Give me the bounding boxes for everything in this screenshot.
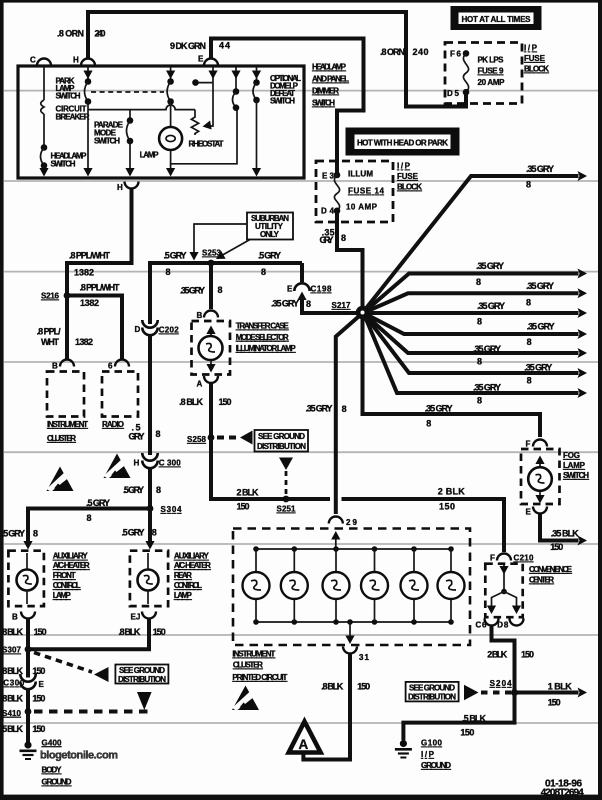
- svg-text:DISTRIBUTION: DISTRIBUTION: [257, 442, 306, 451]
- connector A below transfer case: [179, 376, 232, 435]
- interior rail from park switch to rheostat (hop over lamp wire): [88, 105, 195, 110]
- svg-text:LAMP: LAMP: [174, 591, 193, 600]
- svg-text:.8 PPL/WHT: .8 PPL/WHT: [80, 283, 121, 293]
- connector B at transfer case: [197, 311, 219, 321]
- svg-text:GROUND: GROUND: [42, 778, 72, 787]
- svg-text:S304: S304: [161, 505, 183, 514]
- wire: .8 BLK 150 aux front to S307: [1, 618, 47, 649]
- svg-text:C: C: [30, 56, 36, 65]
- plate codes: [541, 779, 584, 799]
- svg-text:150: 150: [439, 502, 455, 512]
- svg-text:2 BLK: 2 BLK: [487, 650, 508, 660]
- svg-text:150: 150: [32, 724, 45, 734]
- svg-text:CLUSTER: CLUSTER: [47, 434, 76, 443]
- svg-text:8: 8: [306, 299, 311, 309]
- wire: 2 BLK 150 S258 to S251: [211, 438, 286, 512]
- svg-text:B: B: [197, 311, 203, 320]
- svg-text:.35 GRY: .35 GRY: [180, 286, 205, 296]
- svg-text:PRINTED CIRCUIT: PRINTED CIRCUIT: [232, 673, 287, 682]
- splice S217: [332, 301, 352, 310]
- wire: .8 BLK 150 from 31 to splice A: [303, 655, 370, 760]
- svg-text:E: E: [526, 508, 532, 517]
- svg-text:G100: G100: [421, 739, 443, 748]
- svg-text:AUXILIARY: AUXILIARY: [53, 552, 89, 561]
- svg-text:S410: S410: [2, 709, 22, 718]
- svg-text:150: 150: [153, 627, 166, 637]
- splice S304: [147, 505, 182, 514]
- ground G100 I/P ground: [395, 739, 451, 771]
- svg-text:C6: C6: [476, 621, 488, 630]
- wire: .35 GRY transfer case branch from S253: [180, 263, 223, 309]
- wire: .35 GRY 8 fan 2: [367, 281, 588, 312]
- svg-text:9 DK GRN: 9 DK GRN: [170, 41, 206, 51]
- svg-text:.35 GRY: .35 GRY: [306, 404, 333, 414]
- wire: 2 BLK 150 S251 to convenience center C210: [286, 487, 504, 553]
- ESD warning triangle 3: [232, 686, 259, 711]
- circuit breaker + headlamp switch on C leg: [39, 67, 89, 177]
- svg-text:INSTRUMENT: INSTRUMENT: [232, 650, 275, 659]
- svg-text:DISTRIBUTION: DISTRIBUTION: [118, 675, 166, 684]
- svg-text:.35 GRY: .35 GRY: [271, 299, 299, 309]
- svg-text:D: D: [135, 325, 141, 334]
- connector 6 at radio: [108, 360, 129, 371]
- svg-text:I/P: I/P: [524, 44, 538, 53]
- wire: .35 BLK 150 fog switch to I/P: [540, 514, 587, 552]
- svg-text:.5 GRY: .5 GRY: [2, 529, 25, 539]
- svg-text:150: 150: [357, 682, 370, 692]
- connector F / C210 at convenience center: [490, 554, 534, 563]
- svg-text:.5 GRY: .5 GRY: [122, 528, 145, 538]
- svg-text:SEE GROUND: SEE GROUND: [119, 666, 165, 675]
- rheostat: [189, 79, 224, 148]
- svg-text:PK LPS: PK LPS: [478, 56, 505, 65]
- svg-text:BODY: BODY: [42, 766, 63, 775]
- dimmer wiper feed from E: [208, 67, 217, 83]
- svg-text:8: 8: [477, 317, 482, 327]
- connector C: [37, 59, 51, 66]
- connector E: [204, 59, 218, 66]
- park lamp switch on H leg: [56, 67, 93, 177]
- svg-text:blogetonile.com: blogetonile.com: [40, 750, 118, 762]
- svg-text:2 BLK: 2 BLK: [438, 487, 466, 497]
- connector B below aux front: [12, 612, 35, 622]
- svg-text:29: 29: [346, 518, 358, 527]
- instrument cluster printed circuit box: [232, 529, 470, 683]
- svg-text:TRANSFER CASE: TRANSFER CASE: [236, 322, 290, 331]
- wire: .35 GRY 8 fan 7: [365, 317, 587, 406]
- connector C300 (H) on .5 GRY run: [123, 453, 181, 509]
- wire: .5 BLK 150 S410 to G400: [1, 712, 45, 743]
- svg-text:CONVENIENCE: CONVENIENCE: [529, 565, 573, 574]
- svg-text:.8 ORN: .8 ORN: [380, 47, 405, 57]
- svg-text:8: 8: [426, 419, 431, 429]
- cluster lamp 6: [438, 546, 465, 625]
- svg-text:FUSE: FUSE: [524, 54, 546, 63]
- top bus: [255, 548, 451, 550]
- HOT WITH HEAD OR PARK box: [346, 128, 460, 156]
- label: HEADLAMP AND PANEL DIMMER SWITCH: [312, 63, 349, 108]
- wire: .5 GRY right leg of S253 down to C198: [300, 263, 304, 282]
- svg-text:S251: S251: [277, 505, 297, 514]
- svg-text:D8: D8: [497, 621, 509, 630]
- svg-text:.35 BLK: .35 BLK: [551, 529, 580, 539]
- connector H: [81, 59, 95, 66]
- svg-text:CENTER: CENTER: [529, 576, 554, 585]
- wire: .35 GRY 8 fan 1: [366, 261, 587, 311]
- auxiliary A/C-heater rear control lamp: [130, 551, 211, 606]
- svg-text:FOG: FOG: [563, 451, 580, 460]
- ground G400 body ground: [20, 738, 72, 786]
- wire: .8 PPL/WHT 1382 S216 down to instrument cluster B: [37, 296, 93, 361]
- svg-text:8: 8: [526, 298, 531, 308]
- svg-text:8: 8: [342, 404, 347, 414]
- svg-text:10 AMP: 10 AMP: [346, 203, 378, 212]
- svg-text:8: 8: [87, 513, 92, 523]
- svg-text:240: 240: [95, 29, 106, 39]
- cluster lamp 4: [361, 546, 388, 625]
- splice S216: [41, 292, 70, 301]
- svg-text:SWITCH: SWITCH: [56, 92, 81, 101]
- svg-text:150: 150: [521, 650, 534, 660]
- svg-text:8: 8: [477, 357, 482, 367]
- wire: .35 GRY 8 fan 5: [366, 316, 587, 367]
- svg-text:BLOCK: BLOCK: [397, 183, 422, 192]
- svg-text:AND PANEL: AND PANEL: [312, 75, 349, 84]
- svg-text:8: 8: [527, 337, 532, 347]
- svg-text:SWITCH: SWITCH: [51, 160, 76, 169]
- wire: .35 GRY 8 from fuse D4 down to S217: [320, 211, 363, 308]
- wire: .35 GRY 8 fan 4: [367, 315, 588, 348]
- svg-text:B: B: [12, 613, 18, 622]
- wire: .8 PPL/WHT 1382 branch S216 to radio: [67, 283, 122, 361]
- svg-text:SWITCH: SWITCH: [312, 99, 335, 108]
- wire: 9 DK GRN 44 from dimmer switch E to ILLUM fuse E3: [170, 39, 364, 174]
- svg-text:GRY: GRY: [320, 235, 334, 245]
- svg-text:ONLY: ONLY: [260, 230, 280, 239]
- svg-text:HEADLAMP: HEADLAMP: [312, 63, 347, 72]
- svg-text:31: 31: [359, 653, 370, 662]
- headlamp switch assembly box: [18, 55, 304, 179]
- wire: .8 BLK 150 S307 to C300: [1, 649, 45, 677]
- svg-text:BLOCK: BLOCK: [524, 65, 549, 74]
- svg-text:8: 8: [527, 376, 532, 386]
- connector 31 below cluster: [343, 647, 370, 663]
- svg-text:C198: C198: [311, 285, 333, 294]
- svg-text:8: 8: [33, 529, 38, 539]
- svg-text:H: H: [73, 56, 79, 65]
- svg-text:GROUND: GROUND: [421, 761, 451, 770]
- svg-text:1382: 1382: [75, 337, 93, 347]
- svg-text:8: 8: [341, 233, 346, 243]
- HOT AT ALL TIMES box: [451, 6, 542, 30]
- wire: 2 BLK 150 C6 to S204: [487, 625, 534, 690]
- svg-text:MODE SELECTOR: MODE SELECTOR: [236, 333, 289, 342]
- connector EJ below aux rear: [131, 612, 157, 622]
- wire: .8 PPL/WHT 1382 from H to S216: [67, 190, 132, 296]
- bottom bus: [255, 621, 451, 623]
- svg-text:8: 8: [476, 277, 481, 287]
- fuse block: PK LPS FUSE 9 (F6/D5), I/P FUSE BLOCK: [445, 43, 549, 104]
- svg-text:.35 GRY: .35 GRY: [527, 322, 555, 332]
- svg-text:INSTRUMENT: INSTRUMENT: [47, 420, 88, 429]
- svg-text:ILLUMINATOR LAMP: ILLUMINATOR LAMP: [236, 344, 297, 353]
- svg-text:S258: S258: [187, 435, 207, 444]
- wire: .5 GRY 8 S304 to aux front lamp: [2, 498, 150, 550]
- svg-text:.8 BLK: .8 BLK: [321, 682, 344, 692]
- connector C202 (D) on .5 GRY run: [129, 320, 180, 455]
- svg-text:SWITCH: SWITCH: [563, 471, 589, 480]
- svg-text:FUSE 14: FUSE 14: [348, 187, 385, 196]
- wire: .8 ORN 240 feed from fuse 9 D5 to headlamp switch H: [57, 12, 466, 107]
- svg-text:S217: S217: [332, 301, 352, 310]
- svg-text:8: 8: [156, 485, 161, 495]
- svg-text:.5 BLK: .5 BLK: [1, 724, 24, 734]
- svg-text:.5 BLK: .5 BLK: [462, 714, 487, 724]
- ESD warning triangle 2: [104, 454, 131, 479]
- svg-text:1382: 1382: [74, 268, 94, 278]
- wire: .35 GRY 8 fan 3: [367, 301, 587, 327]
- svg-text:A/C-HEATER: A/C-HEATER: [174, 561, 211, 570]
- splice S307 with ground distribution callout: [2, 646, 168, 685]
- svg-text:H: H: [134, 459, 140, 468]
- instrument cluster (illumination input) dashed box: [47, 372, 88, 444]
- svg-text:8: 8: [526, 180, 531, 190]
- svg-text:.35 GRY: .35 GRY: [477, 301, 505, 311]
- wire: .5 GRY 8 S304 to aux rear lamp: [122, 509, 157, 550]
- optional dome lamp defeat switch (two poles): [231, 67, 301, 177]
- svg-text:.5 GRY: .5 GRY: [258, 251, 281, 261]
- svg-text:DIMMER: DIMMER: [312, 87, 339, 96]
- svg-text:.8 ORN: .8 ORN: [57, 29, 84, 39]
- svg-text:WHT: WHT: [41, 337, 60, 347]
- cluster exit to 31: [347, 619, 353, 625]
- wire: .8 BLK 150 aux rear to S307 run: [28, 618, 166, 649]
- svg-text:44: 44: [219, 41, 230, 51]
- svg-text:20 AMP: 20 AMP: [478, 78, 506, 87]
- svg-text:DISTRIBUTION: DISTRIBUTION: [408, 693, 456, 702]
- svg-text:A/C-HEATER: A/C-HEATER: [53, 561, 90, 570]
- svg-text:LAMP: LAMP: [140, 151, 160, 160]
- svg-text:.35 GRY: .35 GRY: [473, 344, 501, 354]
- svg-text:E: E: [198, 55, 204, 64]
- svg-text:SEE GROUND: SEE GROUND: [409, 684, 455, 693]
- fuse block: ILLUM FUSE 14 (E3/D4), I/P FUSE BLOCK: [316, 161, 422, 222]
- wire: .35 GRY 8 fan 6: [366, 316, 588, 386]
- svg-text:150: 150: [32, 694, 45, 704]
- svg-text:8: 8: [152, 528, 157, 538]
- svg-text:.35 GRY: .35 GRY: [526, 281, 554, 291]
- wire: .35 GRY 8 S217 down to fog lamp switch: [363, 316, 541, 437]
- convenience center: [485, 564, 572, 618]
- park rail switch leg with lamp: [140, 67, 237, 177]
- svg-text:.8 BLK: .8 BLK: [1, 694, 24, 704]
- cluster lamp 5: [401, 546, 428, 625]
- svg-text:H: H: [117, 183, 123, 192]
- svg-text:1382: 1382: [80, 298, 99, 308]
- wire: .35 GRY 8 S217 down to instrument cluster 29: [306, 316, 360, 515]
- svg-text:.35 GRY: .35 GRY: [524, 363, 552, 373]
- svg-text:8: 8: [218, 285, 223, 295]
- parade mode switch: [94, 110, 135, 177]
- svg-text:EJ: EJ: [131, 613, 141, 622]
- splice S410 with ground distribution dashes: [2, 692, 152, 718]
- svg-text:REAR: REAR: [174, 571, 192, 580]
- svg-text:HOT WITH HEAD OR PARK: HOT WITH HEAD OR PARK: [357, 138, 448, 147]
- svg-text:.8 BLK: .8 BLK: [1, 627, 24, 637]
- svg-text:LAMP: LAMP: [53, 591, 72, 600]
- fuse element F6-D5: [463, 53, 468, 92]
- svg-text:A: A: [197, 380, 203, 389]
- fuse element E3-D4: [334, 175, 339, 211]
- svg-text:B: B: [52, 362, 58, 371]
- svg-text:SWITCH: SWITCH: [270, 97, 295, 106]
- svg-text:C210: C210: [514, 554, 535, 563]
- svg-text:GRY: GRY: [129, 432, 145, 442]
- cluster lamp 1: [243, 546, 270, 625]
- svg-text:F6: F6: [450, 50, 462, 59]
- transfer case mode selector illuminator lamp: [192, 321, 297, 375]
- svg-text:150: 150: [219, 397, 232, 407]
- splice S204 with ground distribution callout: [406, 679, 518, 702]
- svg-text:RADIO: RADIO: [102, 420, 124, 429]
- svg-text:240: 240: [413, 47, 429, 57]
- svg-text:CLUSTER: CLUSTER: [233, 661, 263, 670]
- svg-text:A: A: [299, 737, 309, 752]
- svg-text:150: 150: [237, 502, 250, 512]
- svg-text:.35 GRY: .35 GRY: [425, 404, 453, 414]
- lamp (panel illumination): [159, 127, 182, 150]
- svg-text:BREAKER: BREAKER: [56, 113, 90, 122]
- ground reference triangle A: [289, 722, 321, 753]
- wire: .5 BLK 150 S204 to G100: [403, 693, 514, 741]
- svg-text:.5 GRY: .5 GRY: [123, 485, 144, 495]
- connector B at instrument cluster: [52, 360, 74, 371]
- cluster lamp 2: [281, 546, 308, 625]
- svg-text:150: 150: [34, 627, 47, 637]
- svg-text:S216: S216: [41, 292, 60, 301]
- splice S251 fed from ground distribution (arrow down): [277, 458, 297, 514]
- wire: .35 GRY 8 fan top run to I/P: [366, 164, 588, 309]
- splice S217 ring (drawn over fan roots): [358, 308, 367, 317]
- SUBURBAN UTILITY ONLY callout: [189, 213, 293, 263]
- faint scan rules: [4, 91, 598, 723]
- svg-text:.5 GRY: .5 GRY: [164, 251, 187, 261]
- svg-text:8: 8: [156, 429, 161, 439]
- svg-text:4208T2694: 4208T2694: [541, 788, 584, 799]
- svg-text:.35 GRY: .35 GRY: [526, 164, 554, 174]
- ESD warning triangle 1: [47, 467, 74, 492]
- svg-text:SEE GROUND: SEE GROUND: [258, 432, 305, 441]
- splice S253: [202, 249, 222, 267]
- wire: .5 GRY 8 main illumination run S253: [150, 251, 302, 325]
- svg-text:.5 GRY: .5 GRY: [86, 498, 110, 508]
- svg-text:.8 BLK: .8 BLK: [179, 397, 204, 407]
- connector H bottom of headlamp switch: [117, 182, 139, 193]
- svg-text:2 BLK: 2 BLK: [237, 488, 260, 498]
- connectors C6 / D8 below convenience center: [476, 619, 524, 630]
- connector F at fog lamp switch: [526, 440, 548, 449]
- svg-text:S204: S204: [490, 679, 513, 688]
- svg-text:150: 150: [32, 666, 45, 676]
- svg-text:ILLUM: ILLUM: [348, 170, 373, 179]
- svg-text:.8 PPL/WHT: .8 PPL/WHT: [69, 251, 111, 261]
- wire: 1 BLK 150 S204 to right: [515, 682, 588, 708]
- svg-text:CONTROL: CONTROL: [53, 581, 81, 590]
- svg-text:C300: C300: [3, 679, 25, 688]
- svg-text:FUSE: FUSE: [397, 172, 419, 181]
- svg-text:SWITCH: SWITCH: [94, 137, 120, 146]
- svg-text:.8 BLK: .8 BLK: [118, 627, 140, 637]
- svg-text:1 BLK: 1 BLK: [548, 682, 573, 692]
- radio dashed box: [102, 372, 138, 430]
- svg-text:CONTROL: CONTROL: [174, 581, 202, 590]
- svg-text:S307: S307: [2, 646, 22, 655]
- svg-text:LAMP: LAMP: [563, 461, 586, 470]
- svg-text:.35 GRY: .35 GRY: [476, 261, 504, 271]
- svg-text:8: 8: [477, 396, 482, 406]
- svg-text:.8 PPL/: .8 PPL/: [37, 327, 61, 337]
- svg-text:150: 150: [460, 728, 474, 738]
- svg-text:G400: G400: [42, 738, 63, 747]
- connector 29 at instrument cluster: [329, 517, 358, 550]
- auxiliary A/C-heater front control lamp: [8, 551, 90, 606]
- svg-text:AUXILIARY: AUXILIARY: [174, 552, 210, 561]
- svg-text:150: 150: [550, 542, 563, 552]
- svg-text:150: 150: [548, 698, 561, 708]
- svg-text:8: 8: [166, 267, 171, 277]
- svg-text:C 300: C 300: [159, 459, 182, 468]
- svg-text:.35 GRY: .35 GRY: [473, 383, 501, 393]
- svg-text:E: E: [287, 285, 293, 294]
- cluster lamp 3: [323, 546, 350, 625]
- fog lamp switch: [521, 449, 589, 504]
- svg-text:6: 6: [108, 362, 113, 371]
- svg-text:C202: C202: [159, 326, 180, 335]
- connector C198 (E): [271, 283, 358, 313]
- splice S258 with ground distribution callout: [187, 430, 308, 452]
- dashed gang link between switches: [91, 91, 164, 93]
- svg-text:8: 8: [261, 267, 266, 277]
- connector E below fog switch: [526, 507, 548, 517]
- svg-text:F: F: [490, 554, 495, 563]
- svg-text:F: F: [526, 440, 531, 449]
- connector C300 (E) bottom left: [1, 674, 45, 712]
- svg-text:RHEOSTAT: RHEOSTAT: [189, 140, 224, 149]
- svg-text:E: E: [39, 680, 45, 689]
- svg-text:FRONT: FRONT: [53, 571, 76, 580]
- svg-text:HOT AT ALL TIMES: HOT AT ALL TIMES: [462, 15, 532, 24]
- svg-text:I/P: I/P: [397, 162, 411, 171]
- svg-text:FUSE 9: FUSE 9: [478, 67, 505, 76]
- svg-text:I/P: I/P: [421, 750, 435, 759]
